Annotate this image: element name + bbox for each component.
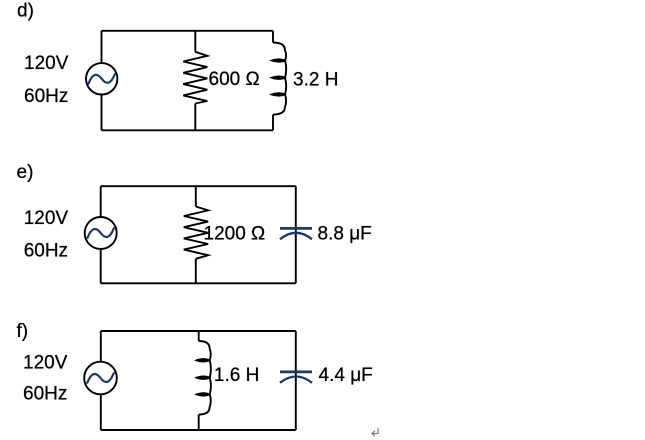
svg-text:4.4 μF: 4.4 μF [319,365,373,386]
svg-text:600 Ω: 600 Ω [209,69,260,90]
svg-text:60Hz: 60Hz [23,384,67,405]
svg-text:8.8 μF: 8.8 μF [318,224,372,245]
svg-text:d): d) [17,1,34,22]
svg-text:e): e) [17,162,34,183]
svg-text:120V: 120V [23,353,68,374]
svg-text:60Hz: 60Hz [24,86,68,107]
svg-text:1.6 H: 1.6 H [214,365,259,386]
svg-text:1200 Ω: 1200 Ω [204,223,266,244]
svg-text:f): f) [17,321,29,342]
svg-text:60Hz: 60Hz [24,241,68,262]
svg-text:120V: 120V [24,208,69,229]
svg-text:3.2 H: 3.2 H [293,70,338,91]
svg-text:120V: 120V [24,53,69,74]
